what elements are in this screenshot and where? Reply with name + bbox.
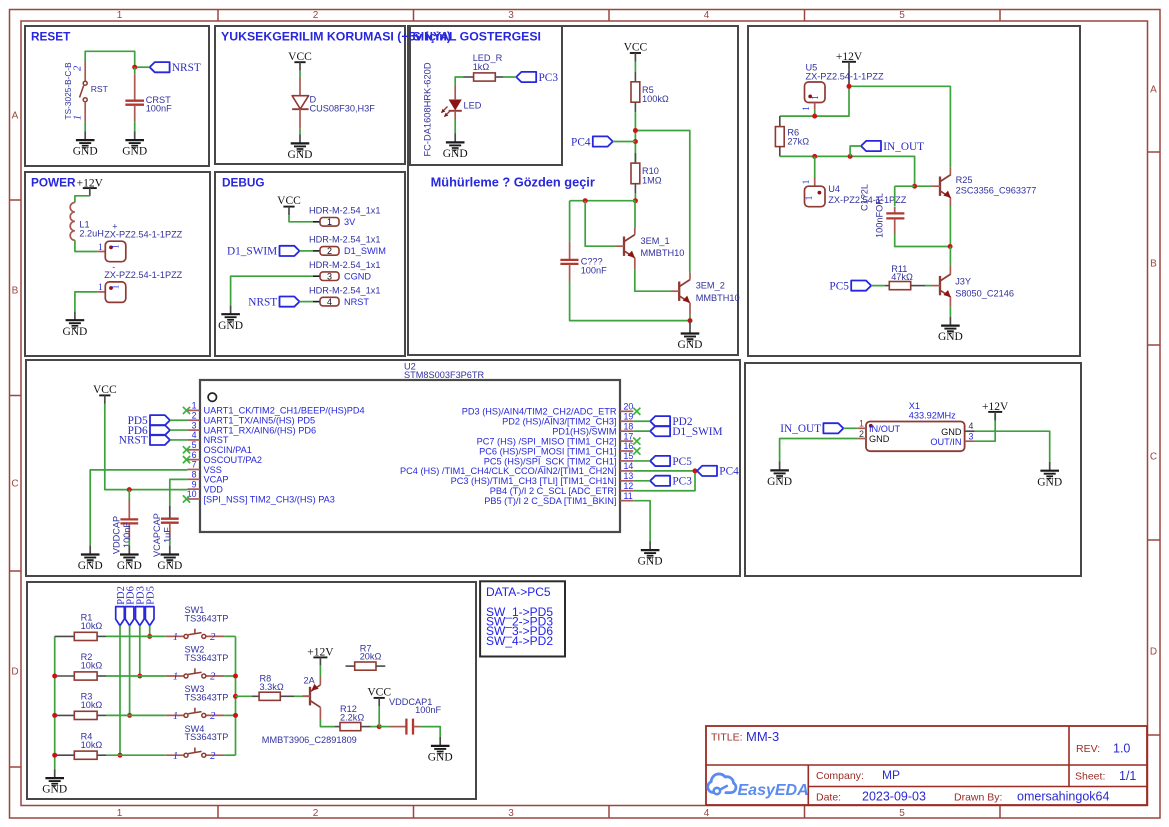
net flag NRST (mcu) [119, 435, 170, 447]
connector ZX-PZ2.54-1-1PZZ (-) [98, 262, 183, 302]
svg-text:D1_SWIM: D1_SWIM [344, 246, 386, 256]
svg-text:EasyEDA: EasyEDA [738, 782, 809, 799]
net flag IN_OUT (RF) [861, 141, 924, 153]
svg-text:20: 20 [624, 402, 634, 412]
net flag PC4 (mcu) [697, 466, 739, 478]
svg-text:4: 4 [704, 808, 710, 819]
ground GND (RF) [938, 317, 963, 344]
svg-text:PC5 (HS)/SPI_SCK [TIM2_CH1]: PC5 (HS)/SPI_SCK [TIM2_CH1] [484, 456, 617, 466]
wire R5 to node PC4 [634, 112, 636, 163]
wire row SW4 left [106, 754, 166, 756]
svg-text:OSCOUT/PA2: OSCOUT/PA2 [204, 455, 263, 465]
svg-text:TITLE:: TITLE: [711, 732, 743, 744]
svg-text:PD1(HS)/SWIM: PD1(HS)/SWIM [552, 426, 616, 436]
transistor 2A MMBT3906 (PNP) [303, 684, 321, 707]
svg-text:19: 19 [624, 411, 634, 421]
svg-text:TS3643TP: TS3643TP [185, 692, 229, 702]
wire pin2 to GND [780, 439, 858, 462]
junction U5 node [812, 114, 817, 119]
svg-text:X1: X1 [909, 401, 920, 411]
svg-text:1/1: 1/1 [1119, 769, 1136, 783]
U2 pin 12 [490, 481, 634, 496]
svg-text:1: 1 [802, 179, 812, 184]
svg-text:RST: RST [91, 84, 109, 94]
svg-text:1: 1 [173, 751, 178, 762]
svg-text:GND: GND [117, 560, 142, 572]
junction VDDCAP1 node [377, 724, 382, 729]
3EM_1 collector/emitter leads [635, 228, 685, 270]
svg-text:1: 1 [117, 10, 123, 21]
svg-text:D: D [11, 667, 18, 678]
svg-text:MMBT3906_C2891809: MMBT3906_C2891809 [262, 735, 357, 745]
svg-text:VCAPCAP: VCAPCAP [152, 513, 162, 557]
+12V power flag (RF) [836, 51, 863, 70]
op-amp U2 STM8S003F3P6TR (MCU chip body) [200, 362, 620, 533]
svg-text:[SPI_NSS] TIM2_CH3/(HS) PA3: [SPI_NSS] TIM2_CH3/(HS) PA3 [204, 494, 335, 504]
net flag PD5 (keypad) [145, 586, 156, 625]
svg-text:S8050_C2146: S8050_C2146 [955, 289, 1014, 299]
svg-text:PC6 (HS)/SPI_MOSI [TIM1_CH1]: PC6 (HS)/SPI_MOSI [TIM1_CH1] [479, 446, 616, 456]
wire NRST flag to header 4 [300, 301, 314, 303]
ground GND (VCAPCAP) [157, 546, 182, 573]
resistor R2 10k [55, 652, 106, 680]
junction GND node [688, 318, 693, 323]
filter X1 433.92MHz [858, 401, 975, 451]
junction PD5 node [147, 634, 152, 639]
ground GND (DEBUG) [218, 305, 243, 332]
svg-text:Company:: Company: [816, 770, 864, 782]
U2 pin 19 [502, 411, 633, 426]
resistor R10 1M [631, 153, 662, 194]
svg-text:MP: MP [882, 768, 900, 782]
U2 pin 2 UART1_TX [187, 410, 315, 425]
svg-text:7: 7 [192, 460, 197, 470]
LED FC-DA1608HRK-620D [422, 62, 481, 156]
resistor R5 100k [631, 72, 669, 112]
VCC power flag (sense) [624, 42, 648, 62]
svg-text:VCC: VCC [367, 687, 391, 699]
svg-text:2: 2 [210, 711, 216, 722]
svg-text:Drawn By:: Drawn By: [954, 792, 1002, 804]
wire VCC to VDD pin 9 [105, 404, 188, 490]
wire 2A collector to R12 [320, 719, 334, 727]
svg-text:REV:: REV: [1076, 743, 1100, 755]
svg-text:PD3 (HS)/AIN4/TIM2_CH2/ADC_ETR: PD3 (HS)/AIN4/TIM2_CH2/ADC_ETR [462, 407, 617, 417]
wire VCC to R5 [634, 62, 636, 72]
svg-text:C: C [11, 479, 18, 490]
U2 pin 4 NRST [187, 430, 228, 445]
svg-text:10kΩ: 10kΩ [81, 621, 103, 631]
svg-text:4: 4 [327, 297, 332, 307]
VCC power flag (DEBUG) [277, 195, 301, 215]
svg-text:11: 11 [624, 491, 633, 501]
wire PD2 vertical [119, 626, 121, 756]
net flag PC3 (mcu) [650, 476, 692, 488]
wire LED_R to PC3 flag [503, 76, 516, 78]
net flag PC5 (RF) [829, 280, 871, 292]
svg-text:NRST: NRST [344, 297, 369, 307]
wire LED to GND [454, 120, 456, 134]
svg-text:U4: U4 [828, 184, 840, 194]
svg-text:YUKSEKGERILIM KORUMASI (+5v iç: YUKSEKGERILIM KORUMASI (+5v için) [221, 30, 451, 44]
R25 leads and labels [950, 168, 1036, 206]
svg-text:GND: GND [938, 331, 963, 343]
junction base node [912, 184, 917, 189]
svg-text:GND: GND [638, 556, 663, 568]
svg-text:1: 1 [192, 401, 197, 411]
resistor R3 10k [55, 692, 106, 720]
svg-text:1: 1 [112, 244, 122, 249]
resistor R7 20k (floating) [346, 644, 386, 671]
svg-text:2: 2 [313, 10, 319, 21]
svg-text:5: 5 [192, 440, 197, 450]
wire pin11 to GND [633, 501, 650, 542]
svg-text:PB5 (T)/I 2 C_SDA [TIM1_BKIN]: PB5 (T)/I 2 C_SDA [TIM1_BKIN] [484, 496, 616, 506]
wire header 3 to GND [231, 276, 313, 305]
svg-text:GND: GND [1037, 476, 1062, 488]
svg-text:B: B [1150, 259, 1157, 270]
wire L1 to U1 connector [75, 240, 98, 251]
svg-text:GND: GND [428, 752, 453, 764]
svg-text:IN_OUT: IN_OUT [883, 141, 924, 153]
VCC power flag (MCU) [93, 384, 117, 404]
svg-text:3: 3 [327, 271, 332, 281]
wire U4 to node [814, 156, 816, 177]
VCC power flag (protection) [288, 51, 312, 71]
svg-text:1: 1 [327, 217, 332, 227]
wire bottom rail to GND [570, 281, 690, 321]
capacitor VCAPCAP 1uF [152, 506, 179, 557]
svg-text:TS3643TP: TS3643TP [185, 732, 229, 742]
section box YUKSEKGERILIM KORUMASI [215, 26, 405, 164]
wire VDDCAP to GND [128, 540, 130, 546]
svg-text:OUT/IN: OUT/IN [930, 437, 961, 447]
svg-text:1: 1 [173, 632, 178, 643]
junction left rail [52, 753, 57, 758]
junction node PC4 [633, 139, 638, 144]
U2 pin 7 VSS [187, 460, 221, 475]
svg-text:HDR-M-2.54_1x1: HDR-M-2.54_1x1 [309, 235, 380, 245]
wire 3EM_1 emitter to 3EM_2 base [635, 270, 671, 291]
svg-text:NRST: NRST [248, 296, 277, 308]
wire PC5 to R11 [871, 285, 885, 287]
svg-text:DEBUG: DEBUG [222, 176, 265, 190]
wire row SW1 right [224, 635, 235, 637]
svg-text:1: 1 [98, 243, 103, 253]
svg-text:2SC3356_C963377: 2SC3356_C963377 [956, 186, 1037, 196]
svg-text:20kΩ: 20kΩ [360, 652, 382, 662]
wire pin12 elbow to PC4 node [633, 471, 695, 491]
svg-text:PC4: PC4 [719, 466, 739, 478]
inductor L1 2.2uH [70, 203, 104, 241]
svg-text:D: D [1150, 647, 1157, 658]
svg-text:100nF: 100nF [146, 104, 172, 114]
junction VDD cap node [127, 487, 132, 492]
net flag PC3 (led) [516, 72, 558, 84]
resistor R8 3.3k [252, 674, 294, 701]
wire diode to GND [299, 129, 301, 135]
wire pin3 to +12V [975, 421, 996, 442]
net flag PC4 (sense) [571, 136, 613, 148]
diode D CUS08F30,H3F [292, 78, 375, 129]
net flag PD2 (mcu) [650, 416, 693, 428]
svg-text:GND: GND [73, 146, 98, 158]
svg-text:PC4: PC4 [571, 136, 591, 148]
section box MCU [26, 360, 740, 576]
svg-text:17: 17 [624, 431, 634, 441]
svg-text:C: C [1150, 452, 1157, 463]
U2 pin 3 UART1_RX [187, 420, 316, 435]
svg-text:HDR-M-2.54_1x1: HDR-M-2.54_1x1 [309, 206, 380, 216]
wire J3Y emitter to GND [949, 307, 951, 317]
wire row SW4 right [224, 754, 235, 756]
wire D1_SWIM stub [633, 430, 650, 432]
section box SINYAL GOSTERGESI [410, 26, 562, 165]
ground GND (POWER) [62, 311, 87, 338]
svg-text:1.0: 1.0 [1113, 742, 1130, 756]
wire 3EM_1 base [585, 201, 615, 247]
svg-text:B: B [12, 286, 19, 297]
svg-text:2: 2 [210, 672, 216, 683]
header pin 1 HDR-M-2.54_1x1 [309, 206, 380, 228]
wire 3EM_2 emitter to GND rail [689, 314, 691, 320]
net flag PD6 (keypad) [125, 586, 136, 625]
svg-text:J3Y: J3Y [955, 277, 971, 287]
U2 pin 5 OSCIN [183, 440, 252, 455]
svg-text:GND: GND [941, 427, 962, 437]
svg-text:100nF: 100nF [415, 705, 441, 715]
capacitor C??? 100nF [560, 201, 607, 281]
svg-text:3V: 3V [344, 217, 356, 227]
svg-text:100nF: 100nF [122, 522, 132, 548]
svg-text:2: 2 [73, 65, 84, 71]
svg-text:PC7 (HS) /SPI_MISO [TIM1_CH2]: PC7 (HS) /SPI_MISO [TIM1_CH2] [477, 436, 617, 446]
svg-text:3: 3 [508, 808, 514, 819]
wire row SW1 left [106, 635, 166, 637]
U2 pin 13 [451, 471, 634, 486]
junction left rail [52, 713, 57, 718]
connector U5 ZX-PZ2.54-1-1PZZ [802, 63, 884, 111]
svg-text:3: 3 [508, 10, 514, 21]
svg-text:SW_4->PD2: SW_4->PD2 [486, 634, 553, 648]
wire NRST stub [170, 439, 187, 441]
wire PD5 stub [170, 419, 187, 421]
svg-text:GND: GND [869, 434, 890, 444]
junction node R5/rail [633, 128, 638, 133]
svg-text:UART1_RX/AIN6/(HS) PD6: UART1_RX/AIN6/(HS) PD6 [204, 425, 317, 435]
svg-text:10kΩ: 10kΩ [81, 740, 103, 750]
svg-text:PC5: PC5 [829, 280, 849, 292]
svg-text:PC3: PC3 [672, 476, 692, 488]
svg-text:D1_SWIM: D1_SWIM [227, 246, 277, 258]
svg-text:1: 1 [811, 95, 821, 100]
+12V power flag (POWER) [77, 177, 104, 196]
U2 pin 9 VDD [187, 479, 223, 494]
svg-text:PB4 (T)/I 2 C_SCL [ADC_ETR]: PB4 (T)/I 2 C_SCL [ADC_ETR] [490, 486, 617, 496]
svg-text:VDD: VDD [204, 484, 224, 494]
svg-text:2: 2 [327, 246, 332, 256]
transistor 3EM_2 MMBTH10 [671, 280, 690, 303]
svg-text:ZX-PZ2.54-1-1PZZ: ZX-PZ2.54-1-1PZZ [806, 71, 884, 81]
svg-text:omersahingok64: omersahingok64 [1017, 790, 1109, 804]
connector ZX-PZ2.54-1-1PZZ (+) [98, 222, 183, 262]
switch SW4 TS3643TP [173, 724, 229, 762]
svg-text:NRST: NRST [204, 435, 229, 445]
wire PC5 stub [633, 460, 650, 462]
net flag PC5 (mcu) [650, 456, 692, 468]
resistor R4 10k [55, 731, 106, 759]
svg-text:R25: R25 [956, 175, 973, 185]
transistor R25 2SC3356_C963377 [932, 175, 951, 198]
wire cap elbow [895, 185, 915, 187]
svg-text:IN_OUT: IN_OUT [780, 423, 821, 435]
wire top rail NRST net [85, 51, 135, 67]
U2 pin 18 [552, 421, 633, 436]
junction PC4 node [693, 468, 698, 473]
section box DEBUG [215, 172, 405, 356]
wire base node left [570, 200, 636, 202]
U2 pin 8 VCAP [187, 470, 228, 485]
svg-text:2: 2 [210, 751, 216, 762]
net flag NRST (reset) [150, 62, 201, 74]
header pin 3 HDR-M-2.54_1x1 [309, 260, 380, 282]
+12V power flag (keypad) [307, 647, 334, 666]
svg-text:C1?2L: C1?2L [860, 184, 870, 211]
svg-text:3: 3 [192, 420, 197, 430]
svg-text:ZX-PZ2.54-1-1PZZ: ZX-PZ2.54-1-1PZZ [104, 270, 182, 280]
svg-text:TS3643TP: TS3643TP [185, 613, 229, 623]
svg-text:GND: GND [62, 326, 87, 338]
svg-text:2: 2 [859, 429, 864, 439]
svg-text:A: A [1150, 85, 1157, 96]
svg-text:12: 12 [624, 481, 634, 491]
connector U4 ZX-PZ2.54-1-1PZZ [802, 178, 907, 207]
wire left rail to GND [54, 636, 56, 769]
svg-text:HDR-M-2.54_1x1: HDR-M-2.54_1x1 [309, 285, 380, 295]
svg-text:433.92MHz: 433.92MHz [909, 411, 956, 421]
svg-text:GND: GND [157, 560, 182, 572]
wire R25 emitter to node [949, 206, 951, 247]
junction PD2 node [118, 753, 123, 758]
junction left rail [52, 674, 57, 679]
svg-text:TS-3025-B-C-B: TS-3025-B-C-B [63, 62, 73, 120]
net flag D1_SWIM (debug) [227, 246, 300, 258]
svg-text:1uF: 1uF [162, 527, 172, 543]
junction cap branch [583, 198, 588, 203]
svg-text:Date:: Date: [816, 792, 841, 804]
svg-text:MMBTH10: MMBTH10 [641, 248, 685, 258]
section box Muhurleme [408, 26, 738, 355]
section box X1 filter [745, 363, 1081, 576]
wire PD3 vertical [139, 626, 141, 676]
wire VSS pin7 to GND [90, 470, 187, 546]
wire R11 to J3Y base [925, 285, 932, 287]
section box RF switch [748, 26, 1080, 356]
svg-text:GND: GND [78, 560, 103, 572]
svg-text:47kΩ: 47kΩ [891, 272, 913, 282]
svg-text:GND: GND [42, 784, 67, 796]
wire node to J3Y collector [949, 247, 951, 266]
svg-text:RESET: RESET [31, 30, 71, 44]
svg-text:5: 5 [899, 808, 905, 819]
svg-text:Sheet:: Sheet: [1075, 771, 1105, 783]
wire R8 to 2A base [294, 695, 302, 697]
svg-text:GND: GND [767, 476, 792, 488]
wire switch to GND [84, 122, 86, 131]
U2 pin 17 [477, 431, 641, 446]
capacitor C (rotated labels) [860, 184, 905, 238]
wire VCC to node [378, 706, 380, 726]
svg-text:ZX-PZ2.54-1-1PZZ: ZX-PZ2.54-1-1PZZ [104, 229, 182, 239]
svg-text:1: 1 [98, 283, 103, 293]
svg-text:MM-3: MM-3 [746, 729, 779, 744]
resistor LED_R 1k [464, 53, 504, 81]
svg-text:STM8S003F3P6TR: STM8S003F3P6TR [404, 370, 485, 380]
2A leads and labels [262, 675, 357, 745]
net flag PD3 (keypad) [136, 586, 147, 625]
svg-text:1: 1 [173, 672, 178, 683]
svg-text:UART1_TX/AIN5/(HS) PD5: UART1_TX/AIN5/(HS) PD5 [204, 416, 316, 426]
svg-text:PC3 (HS)/TIM1_CH3 [TLI] [TIM1_: PC3 (HS)/TIM1_CH3 [TLI] [TIM1_CH1N] [451, 476, 617, 486]
svg-text:VSS: VSS [204, 465, 222, 475]
svg-text:PC3: PC3 [539, 72, 559, 84]
svg-text:1: 1 [112, 284, 122, 289]
wire LED_R to LED [455, 77, 463, 86]
net flag PD5 (mcu) [128, 415, 170, 427]
svg-text:GND: GND [122, 146, 147, 158]
svg-text:13: 13 [624, 471, 634, 481]
junction PD3 node [137, 674, 142, 679]
resistor R6 27k [775, 116, 809, 156]
ground GND (VSS) [78, 546, 103, 573]
svg-text:100nFORL: 100nFORL [874, 193, 884, 238]
svg-text:NRST: NRST [172, 62, 201, 74]
net flag PD2 (keypad) [116, 586, 127, 625]
junction emitter/collector node [948, 244, 953, 249]
net flag NRST (debug) [248, 296, 299, 308]
+12V power flag (X1) [982, 401, 1009, 420]
svg-text:POWER: POWER [31, 176, 76, 190]
svg-text:GND: GND [288, 149, 313, 161]
svg-text:3EM_1: 3EM_1 [641, 236, 670, 246]
svg-text:8: 8 [192, 470, 197, 480]
svg-text:4: 4 [192, 430, 197, 440]
ground GND (keypad) [42, 769, 67, 796]
svg-text:9: 9 [192, 479, 197, 489]
svg-text:PC4 (HS) /TIM1_CH4/CLK_CCO/AIN: PC4 (HS) /TIM1_CH4/CLK_CCO/AIN2/[TIM1_CH… [400, 466, 616, 476]
svg-text:100nF: 100nF [581, 266, 607, 276]
wire +12V down to U5 node [780, 86, 849, 116]
ground GND (sense) [678, 321, 703, 352]
wire PD2 stub [633, 420, 650, 422]
svg-text:VCC: VCC [93, 384, 117, 396]
wire PC4 flag stub [613, 141, 636, 143]
svg-text:15: 15 [624, 451, 634, 461]
svg-text:UART1_CK/TIM2_CH1/BEEP/(HS)PD4: UART1_CK/TIM2_CH1/BEEP/(HS)PD4 [204, 406, 365, 416]
header pin 4 HDR-M-2.54_1x1 [309, 285, 380, 307]
capacitor VDDCAP1 100nF [379, 697, 441, 735]
wire +12V to rail [848, 70, 850, 84]
svg-text:3EM_2: 3EM_2 [696, 281, 725, 291]
U2 pin 15 [484, 451, 634, 466]
svg-text:16: 16 [624, 441, 634, 451]
wire row SW3 right [224, 714, 235, 716]
U2 pin 6 OSCOUT [183, 450, 262, 465]
wire VDDCAP1 to GND [421, 727, 441, 737]
wire base node to R25 [915, 185, 932, 187]
resistor R1 10k [55, 613, 106, 641]
wire PD5 vertical [149, 626, 151, 637]
